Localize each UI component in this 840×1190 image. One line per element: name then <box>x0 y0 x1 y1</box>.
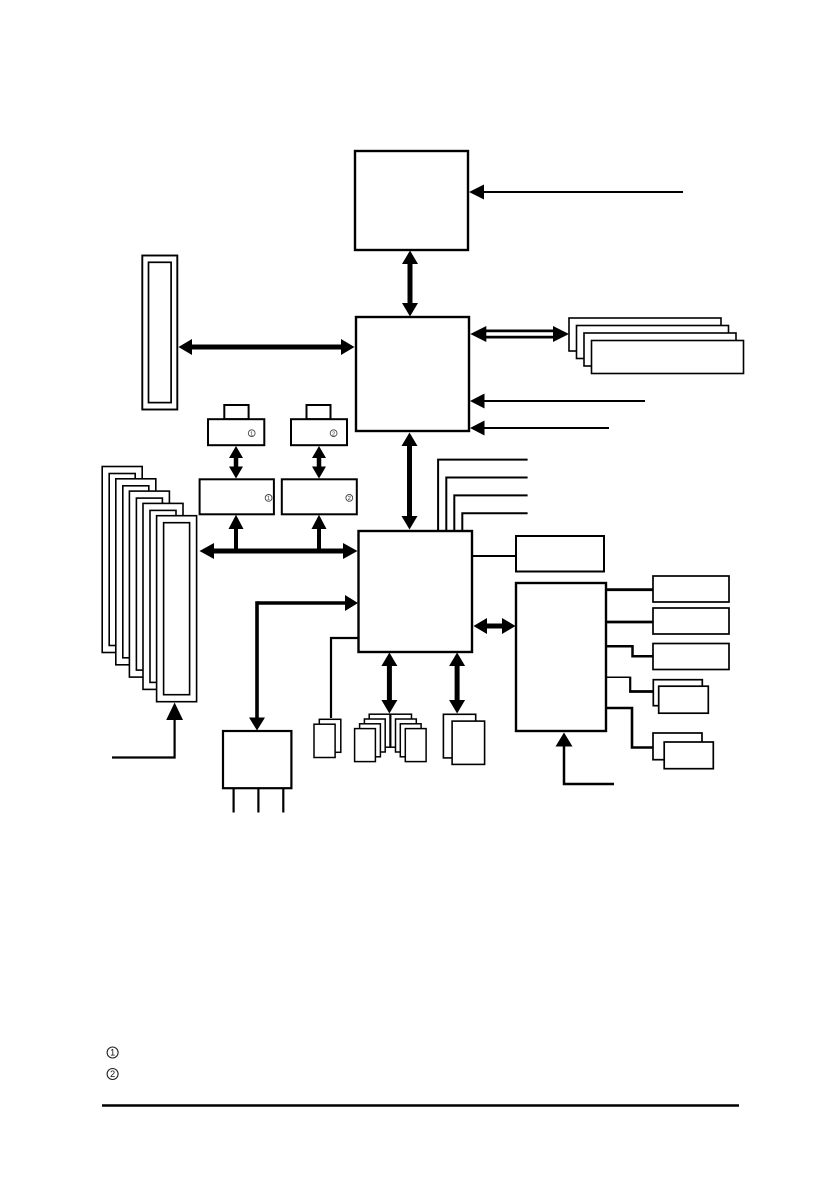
svg-text:1: 1 <box>250 431 253 437</box>
svg-text:1: 1 <box>267 496 270 502</box>
svg-text:2: 2 <box>110 1069 115 1079</box>
svg-text:2: 2 <box>348 496 351 502</box>
svg-text:1: 1 <box>110 1048 115 1058</box>
svg-text:2: 2 <box>332 431 335 437</box>
